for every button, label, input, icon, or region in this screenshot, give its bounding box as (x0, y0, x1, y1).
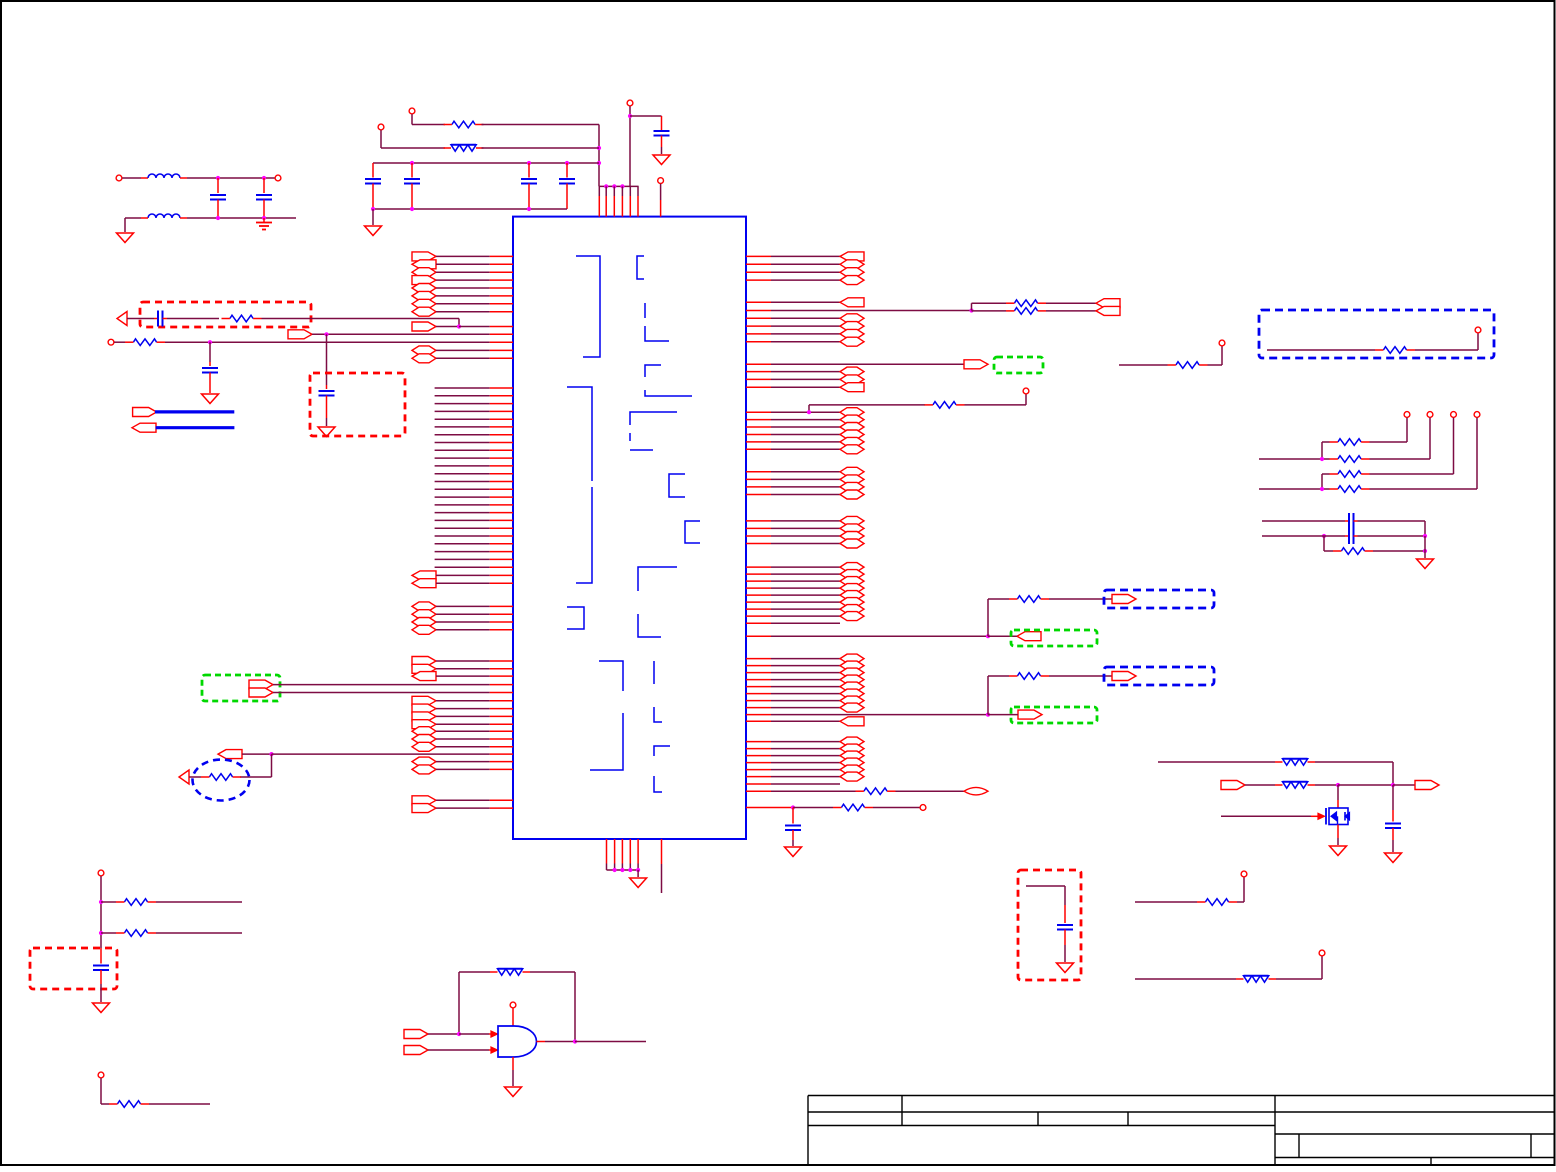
IC right pin row 42 port (746, 675, 864, 684)
wire R24 right (149, 1103, 210, 1105)
ground C10 (202, 394, 219, 404)
wire TP4 vertical (1476, 418, 1478, 489)
IC right pin row 56 wire (746, 790, 856, 792)
IC right pin row 37 wire (746, 622, 840, 624)
resistor R12 (1168, 362, 1208, 369)
wire RESET row (242, 752, 513, 756)
IC left pin row 12 port (412, 579, 513, 588)
IC left pin dense 4 (435, 410, 513, 412)
blue bus line 2 (156, 426, 235, 429)
port circle P10 (1241, 871, 1247, 877)
wire C15 feed (1026, 886, 1065, 905)
wire R13 right (1370, 441, 1408, 443)
resistor R22 (116, 899, 156, 906)
resistor R7 (856, 788, 896, 795)
IC right pin row 26 port (746, 524, 864, 533)
IC right pin row 51 port (746, 751, 864, 760)
wire VDD to C5 (630, 115, 662, 117)
port eye AADET_N (964, 787, 988, 795)
port circle P11 (1319, 950, 1325, 956)
port VBACKUP (288, 330, 312, 339)
IC right pin row 27 port (746, 532, 864, 541)
wire R9 to port (1046, 302, 1096, 304)
wire gate Q1 (1221, 813, 1325, 819)
wire branch to C10 (209, 342, 211, 362)
port J-VDD circle (627, 100, 633, 116)
wire P5 to R4 (114, 341, 125, 343)
port USB_DP (249, 688, 273, 697)
wire R10 to port (1046, 310, 1096, 312)
IC left pin dense 7 (435, 434, 513, 436)
wire ladder row 2 (1259, 457, 1330, 461)
IC right pin row 40 port (746, 661, 864, 670)
IC left pin row 24 port (412, 727, 513, 736)
inductor L1 (148, 174, 180, 178)
IC left pin dense 1 (435, 387, 513, 389)
wire R14 right (1370, 458, 1431, 460)
capacitor C2 (404, 163, 420, 209)
IC right pin row 32 port (746, 584, 864, 593)
red dashed box GPS input (140, 302, 311, 327)
resistor R23 (116, 930, 156, 937)
inductor L2 (148, 214, 180, 218)
blue bus line 1 (155, 410, 234, 413)
IC right pin row 23 port (746, 482, 864, 491)
port arrow RESET (179, 770, 201, 784)
wire ladder feed 3 (1322, 474, 1330, 489)
IC right pin row 9 port (746, 329, 864, 338)
ground Q1 (1330, 838, 1347, 856)
ground bottom (630, 870, 647, 888)
resistor R13 (1330, 439, 1370, 446)
IC right pin row 13 port (746, 375, 864, 384)
capacitor C4 (559, 163, 575, 209)
IC left pin row 19 port (412, 672, 513, 681)
capacitor C6 (210, 178, 226, 218)
IC left pin row 23 port (412, 720, 513, 729)
ground below C5 (653, 155, 670, 165)
IC left pin row 20 port (412, 696, 513, 705)
capacitor C5 (654, 116, 670, 154)
capacitor C1 (365, 163, 381, 209)
wire R23 right (156, 932, 242, 934)
wire res to blue box (1049, 675, 1112, 677)
port circle P1 (409, 108, 415, 124)
wire to R17 (1324, 536, 1333, 551)
red dashed box C15 (1018, 870, 1081, 980)
port RESET (218, 750, 242, 759)
IC left pin row 11 port (412, 571, 513, 580)
port group green (988, 632, 1041, 641)
resistor R8 (833, 804, 873, 811)
resistor R17 (1333, 548, 1373, 555)
IC left pin row 1 port (412, 252, 513, 261)
IC left pin dense 19 (435, 527, 513, 529)
resistor R9 (1006, 300, 1046, 307)
resistor R25 (490, 969, 530, 976)
IC left pin row 4 port (412, 276, 513, 285)
wire SDA (1262, 534, 1349, 538)
IC left pin row 6 port (412, 291, 513, 300)
IC right pin row 43 port (746, 682, 864, 691)
wire R21 to circle (1276, 956, 1322, 979)
IC left pin row 14 port (412, 610, 513, 619)
green dashed box group (1011, 630, 1097, 646)
resistor R4 (125, 339, 165, 346)
wire ANT to C8 (127, 318, 154, 320)
IC right pin row 2 port (746, 260, 864, 269)
wire RESET branch (240, 754, 272, 777)
resistor R24 (109, 1101, 149, 1108)
resistor R3 (222, 315, 262, 322)
IC left pin dense 5 (435, 418, 513, 420)
IC left pin row 3 port (412, 268, 513, 277)
IC left pin dense 22 (435, 551, 513, 553)
blue dashed box DBG (1259, 310, 1494, 358)
IC U1 body (513, 217, 746, 839)
port circle TP4 (1474, 412, 1480, 418)
wire feedback right (530, 972, 575, 1042)
wire res to blue box (1049, 598, 1112, 600)
IC top pin stub 3 (613, 186, 615, 216)
IC right pin row 4 port (746, 276, 864, 285)
IC right pin row 5 port (746, 298, 864, 307)
IC left pin dense 6 (435, 426, 513, 428)
IC right pin row 30 port (746, 570, 864, 579)
wire R6 to circle (965, 394, 1027, 405)
blue dashed ellipse (193, 760, 250, 801)
wire P12 row2 (101, 932, 116, 934)
IC right pin row 15 port (746, 408, 864, 417)
IC right pin row 54 port (746, 772, 864, 781)
wire R1 to bus (482, 125, 602, 187)
wire feedback left (459, 972, 490, 1034)
wire P12 row1 (101, 901, 116, 903)
IC left pin dense 11 (435, 465, 513, 467)
port USB_DM (249, 680, 273, 689)
wire ladder row 4 (1259, 487, 1330, 491)
wire bottom bus (607, 868, 641, 872)
IC left pin row 13 port (412, 602, 513, 611)
IC right pin row 16 port (746, 415, 864, 424)
title block (808, 1096, 1554, 1165)
port bus out (133, 408, 157, 417)
port bus in (132, 423, 156, 432)
port AND in2 (404, 1046, 428, 1055)
capacitor C13 (1349, 528, 1354, 544)
wire USB_DM row (273, 684, 513, 686)
ground C16 (93, 1003, 110, 1013)
capacitor C10 (202, 362, 218, 393)
wire DBG (1267, 349, 1375, 351)
IC U1 internal section marks (567, 256, 700, 792)
capacitor C15 (1057, 905, 1073, 962)
IC right pin row 38 wire (746, 634, 990, 638)
IC right pin row 24 port (746, 490, 864, 499)
port TIMEPULSE (964, 360, 988, 369)
wire R8 to circle (873, 807, 920, 809)
wire R15 right (1370, 473, 1454, 475)
IC right pin row 14 port (746, 383, 864, 392)
wire P1 row (412, 124, 445, 126)
wire ANT_DET (1135, 978, 1236, 980)
wire R19 right (1315, 783, 1415, 787)
wire R4 row (165, 340, 513, 344)
capacitor C16 (93, 948, 109, 1002)
wire cap rail bottom (371, 207, 567, 211)
IC right pin row 10 port (746, 337, 864, 346)
wire SAFEBOOT (1119, 364, 1168, 366)
wire AND in1 (428, 1031, 498, 1037)
IC right pin row 45 port (746, 696, 864, 705)
IC right pin row 36 port (746, 612, 864, 621)
wire P3 to L1 (122, 177, 148, 179)
wire branch to C9 (326, 334, 328, 385)
IC right pin row 11 wire (746, 363, 964, 365)
ground cap rail (365, 209, 382, 236)
wire SDA right (1354, 534, 1428, 538)
port group blue (1112, 672, 1136, 681)
IC right pin row 29 port (746, 563, 864, 572)
capacitor C12 (1349, 513, 1354, 529)
IC left pin row 9 port (412, 346, 513, 355)
IC left pin row 7 port (412, 299, 513, 308)
wire C8 to R3 (167, 318, 219, 320)
IC right pin row 39 port (746, 654, 864, 663)
IC right pin row 31 port (746, 577, 864, 586)
resistor R14 (1330, 456, 1370, 463)
IC left pin dense 18 (435, 519, 513, 521)
wire P2 row (381, 147, 445, 149)
wire AND in2 (428, 1047, 498, 1053)
wire UART low row (972, 310, 1007, 312)
resistor R19 (1275, 782, 1315, 789)
IC right pin row 34 port (746, 598, 864, 607)
IC right pin row 49 port (746, 737, 864, 746)
wire R7 to eye port (896, 790, 965, 792)
wire L2 right (180, 216, 296, 220)
ground C14 (1385, 853, 1402, 863)
IC left pin dense 21 (435, 543, 513, 545)
earth ground LC (256, 218, 272, 230)
IC bottom stub 6 (661, 839, 663, 893)
IC left pin dense 13 (435, 481, 513, 483)
wire ladder feed 1 (1322, 442, 1330, 459)
port circle P7 (920, 805, 926, 811)
IC right pin row 25 port (746, 516, 864, 525)
IC left pin dense 2 (435, 395, 513, 397)
IC left pin dense 24 (435, 566, 513, 568)
IC right pin row 41 port (746, 668, 864, 677)
capacitor C3 (521, 163, 537, 209)
port circle TP1 (1404, 412, 1410, 418)
IC left pin row 17 port (412, 657, 513, 666)
IC right pin row 50 port (746, 744, 864, 753)
IC left pin dense 3 (435, 403, 513, 405)
wire TP1 vertical (1406, 418, 1408, 442)
wire res feed (988, 675, 1009, 677)
IC left pin row 2 port (412, 260, 513, 269)
ground C11 (785, 847, 802, 857)
port AND in1 (404, 1030, 428, 1039)
IC top pin stub 6 (637, 186, 639, 216)
IC right pin row 12 port (746, 367, 864, 376)
port circle P2 (378, 124, 384, 148)
IC right pin row 8 port (746, 322, 864, 331)
resistor R16 (1330, 486, 1370, 493)
wire R17 right (1373, 536, 1427, 558)
IC left pin row 25 port (412, 735, 513, 744)
wire P12 vertical (99, 876, 103, 948)
wire R22 right (156, 901, 242, 903)
port circle P13 (98, 1072, 104, 1078)
wire R12 to circle (1208, 346, 1223, 365)
resistor R6 (925, 402, 965, 409)
capacitor C8 (154, 311, 167, 327)
wire VDD vertical (628, 114, 632, 186)
wire group feed (987, 599, 989, 636)
port double UART (1096, 299, 1120, 316)
wire VCC_RF (1158, 761, 1275, 763)
IC right pin row 3 port (746, 268, 864, 277)
port circle TP3 (1451, 412, 1457, 418)
IC bottom pin stubs (607, 839, 639, 870)
blue dashed box group (1104, 667, 1214, 685)
IC left pin dense 17 (435, 512, 513, 514)
green dashed box timepulse (994, 357, 1043, 373)
IC left pin dense 23 (435, 558, 513, 560)
IC right pin row 52 port (746, 758, 864, 767)
IC right pin row 19 port (746, 437, 864, 446)
IC left pin dense 10 (435, 457, 513, 459)
wire group feed (987, 676, 989, 715)
IC top pin stub 5 (629, 186, 631, 216)
IC right pin row 22 port (746, 475, 864, 484)
resistor R21 (1236, 976, 1276, 983)
wire EXTINT jog (809, 405, 925, 412)
wire SCL (1262, 520, 1349, 522)
port circle P14 (510, 1002, 516, 1026)
port group blue (1112, 595, 1136, 604)
IC top pin stub 4 (621, 186, 623, 216)
wire TP2 vertical (1429, 418, 1431, 459)
resistor R18 (1275, 759, 1315, 766)
IC left pin row 18 port (412, 664, 513, 673)
IC left pin dense 20 (435, 535, 513, 537)
red dashed box C16 (30, 948, 117, 989)
port circle P8 (1475, 327, 1481, 333)
ground I2C (1417, 559, 1434, 569)
wire SCL right (1354, 521, 1426, 536)
port circle P12 (98, 870, 104, 876)
IC left pin row 5 port (412, 284, 513, 293)
green dashed box USB (202, 675, 280, 701)
IC right pin row 17 port (746, 423, 864, 432)
IC right pin row 46 port (746, 703, 864, 712)
wire R16 right (1370, 488, 1478, 490)
IC left pin dense 8 (435, 442, 513, 444)
wire VBACKUP row (312, 332, 513, 336)
wire TP3 vertical (1453, 418, 1455, 474)
capacitor C7 (256, 178, 272, 218)
ground C15 (1057, 963, 1074, 973)
IC left pin row 27 port (412, 757, 513, 766)
resistor group (1009, 596, 1049, 603)
wire AND out (537, 1039, 647, 1043)
green dashed box group (1011, 707, 1097, 723)
port circle P6 (1023, 388, 1029, 394)
IC left pin row 29 port (412, 796, 513, 805)
port circle P3 (116, 175, 122, 181)
IC top pin stub 1 (598, 186, 600, 216)
IC right pin row 47 wire (746, 713, 990, 717)
resistor R2 (444, 145, 484, 152)
ground AND (505, 1087, 522, 1097)
port V_ANT (1221, 781, 1245, 790)
wire UART jog (972, 303, 1007, 310)
IC left pin dense 9 (435, 449, 513, 451)
red dashed box backup cap (310, 373, 405, 436)
port J-IO circle (658, 178, 664, 217)
IC right pin row 35 port (746, 605, 864, 614)
wire top bus (599, 184, 639, 188)
wire P13 (101, 1078, 109, 1104)
IC right pin row 20 port (746, 445, 864, 454)
wire R11 to circle (1415, 333, 1478, 350)
wire R3 to jog (262, 319, 460, 327)
port group green (988, 710, 1042, 719)
blue dashed box group (1104, 590, 1214, 608)
IC left pin row 28 port (412, 765, 513, 774)
IC left pin row 26 port (412, 742, 513, 751)
capacitor C9 (319, 385, 335, 418)
IC right pin row 48 port (746, 717, 864, 726)
resistor R20 (1197, 899, 1237, 906)
port circle P4 (275, 175, 281, 181)
wire cap rail top (373, 161, 599, 165)
port circle TP2 (1427, 412, 1433, 418)
resistor R5 (201, 774, 241, 781)
port circle P5 (108, 339, 114, 345)
wire V_ANT to R19 (1245, 784, 1275, 786)
wire L2 left to ground (125, 218, 148, 232)
wire AND gnd (512, 1057, 514, 1086)
IC right pin row 44 port (746, 689, 864, 698)
port circle P9 (1219, 340, 1225, 346)
port VCC_ANT (1415, 781, 1439, 790)
IC left pin dense 12 (435, 473, 513, 475)
IC top pin stub 2 (605, 186, 607, 216)
IC left pin row 8 port (412, 307, 513, 316)
resistor R1 (444, 121, 484, 128)
AND gate U2 (498, 1026, 537, 1057)
IC left pin row 16 port (412, 625, 513, 634)
IC right pin row 6 wire (746, 308, 974, 312)
capacitor C11 (785, 808, 801, 847)
port arrow ANT (117, 312, 127, 326)
ground C9 (318, 418, 335, 437)
IC right pin row 33 port (746, 591, 864, 600)
capacitor C14 (1385, 785, 1401, 852)
IC left pin dense 14 (435, 488, 513, 490)
IC right pin row 28 port (746, 539, 864, 548)
wire R20 to circle (1237, 877, 1244, 902)
IC left pin dense 16 (435, 504, 513, 506)
IC left pin row 22 port (412, 712, 513, 721)
IC right pin row 55 wire (746, 783, 840, 785)
IC right pin V_BCKP (746, 805, 833, 809)
IC left pin dense 15 (435, 496, 513, 498)
